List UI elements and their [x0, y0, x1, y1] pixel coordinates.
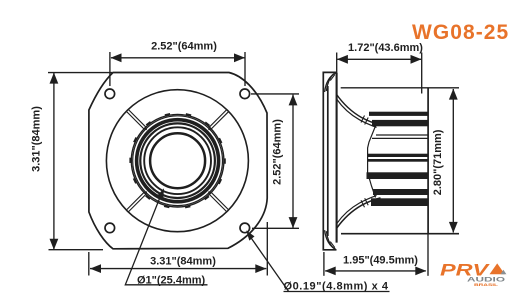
svg-text:1.95"(49.5mm): 1.95"(49.5mm)	[343, 255, 418, 267]
svg-text:Ø0.19"(4.8mm) x 4: Ø0.19"(4.8mm) x 4	[284, 281, 389, 293]
svg-text:Ø1"(25.4mm): Ø1"(25.4mm)	[137, 275, 206, 287]
svg-text:2.80"(71mm): 2.80"(71mm)	[432, 129, 444, 195]
svg-text:2.52"(64mm): 2.52"(64mm)	[151, 41, 217, 53]
svg-text:WG08-25: WG08-25	[412, 21, 509, 44]
svg-text:BRASIL: BRASIL	[474, 282, 499, 287]
svg-text:3.31"(84mm): 3.31"(84mm)	[31, 106, 43, 172]
svg-text:2.52"(64mm): 2.52"(64mm)	[272, 119, 284, 185]
svg-text:3.31"(84mm): 3.31"(84mm)	[150, 256, 216, 268]
